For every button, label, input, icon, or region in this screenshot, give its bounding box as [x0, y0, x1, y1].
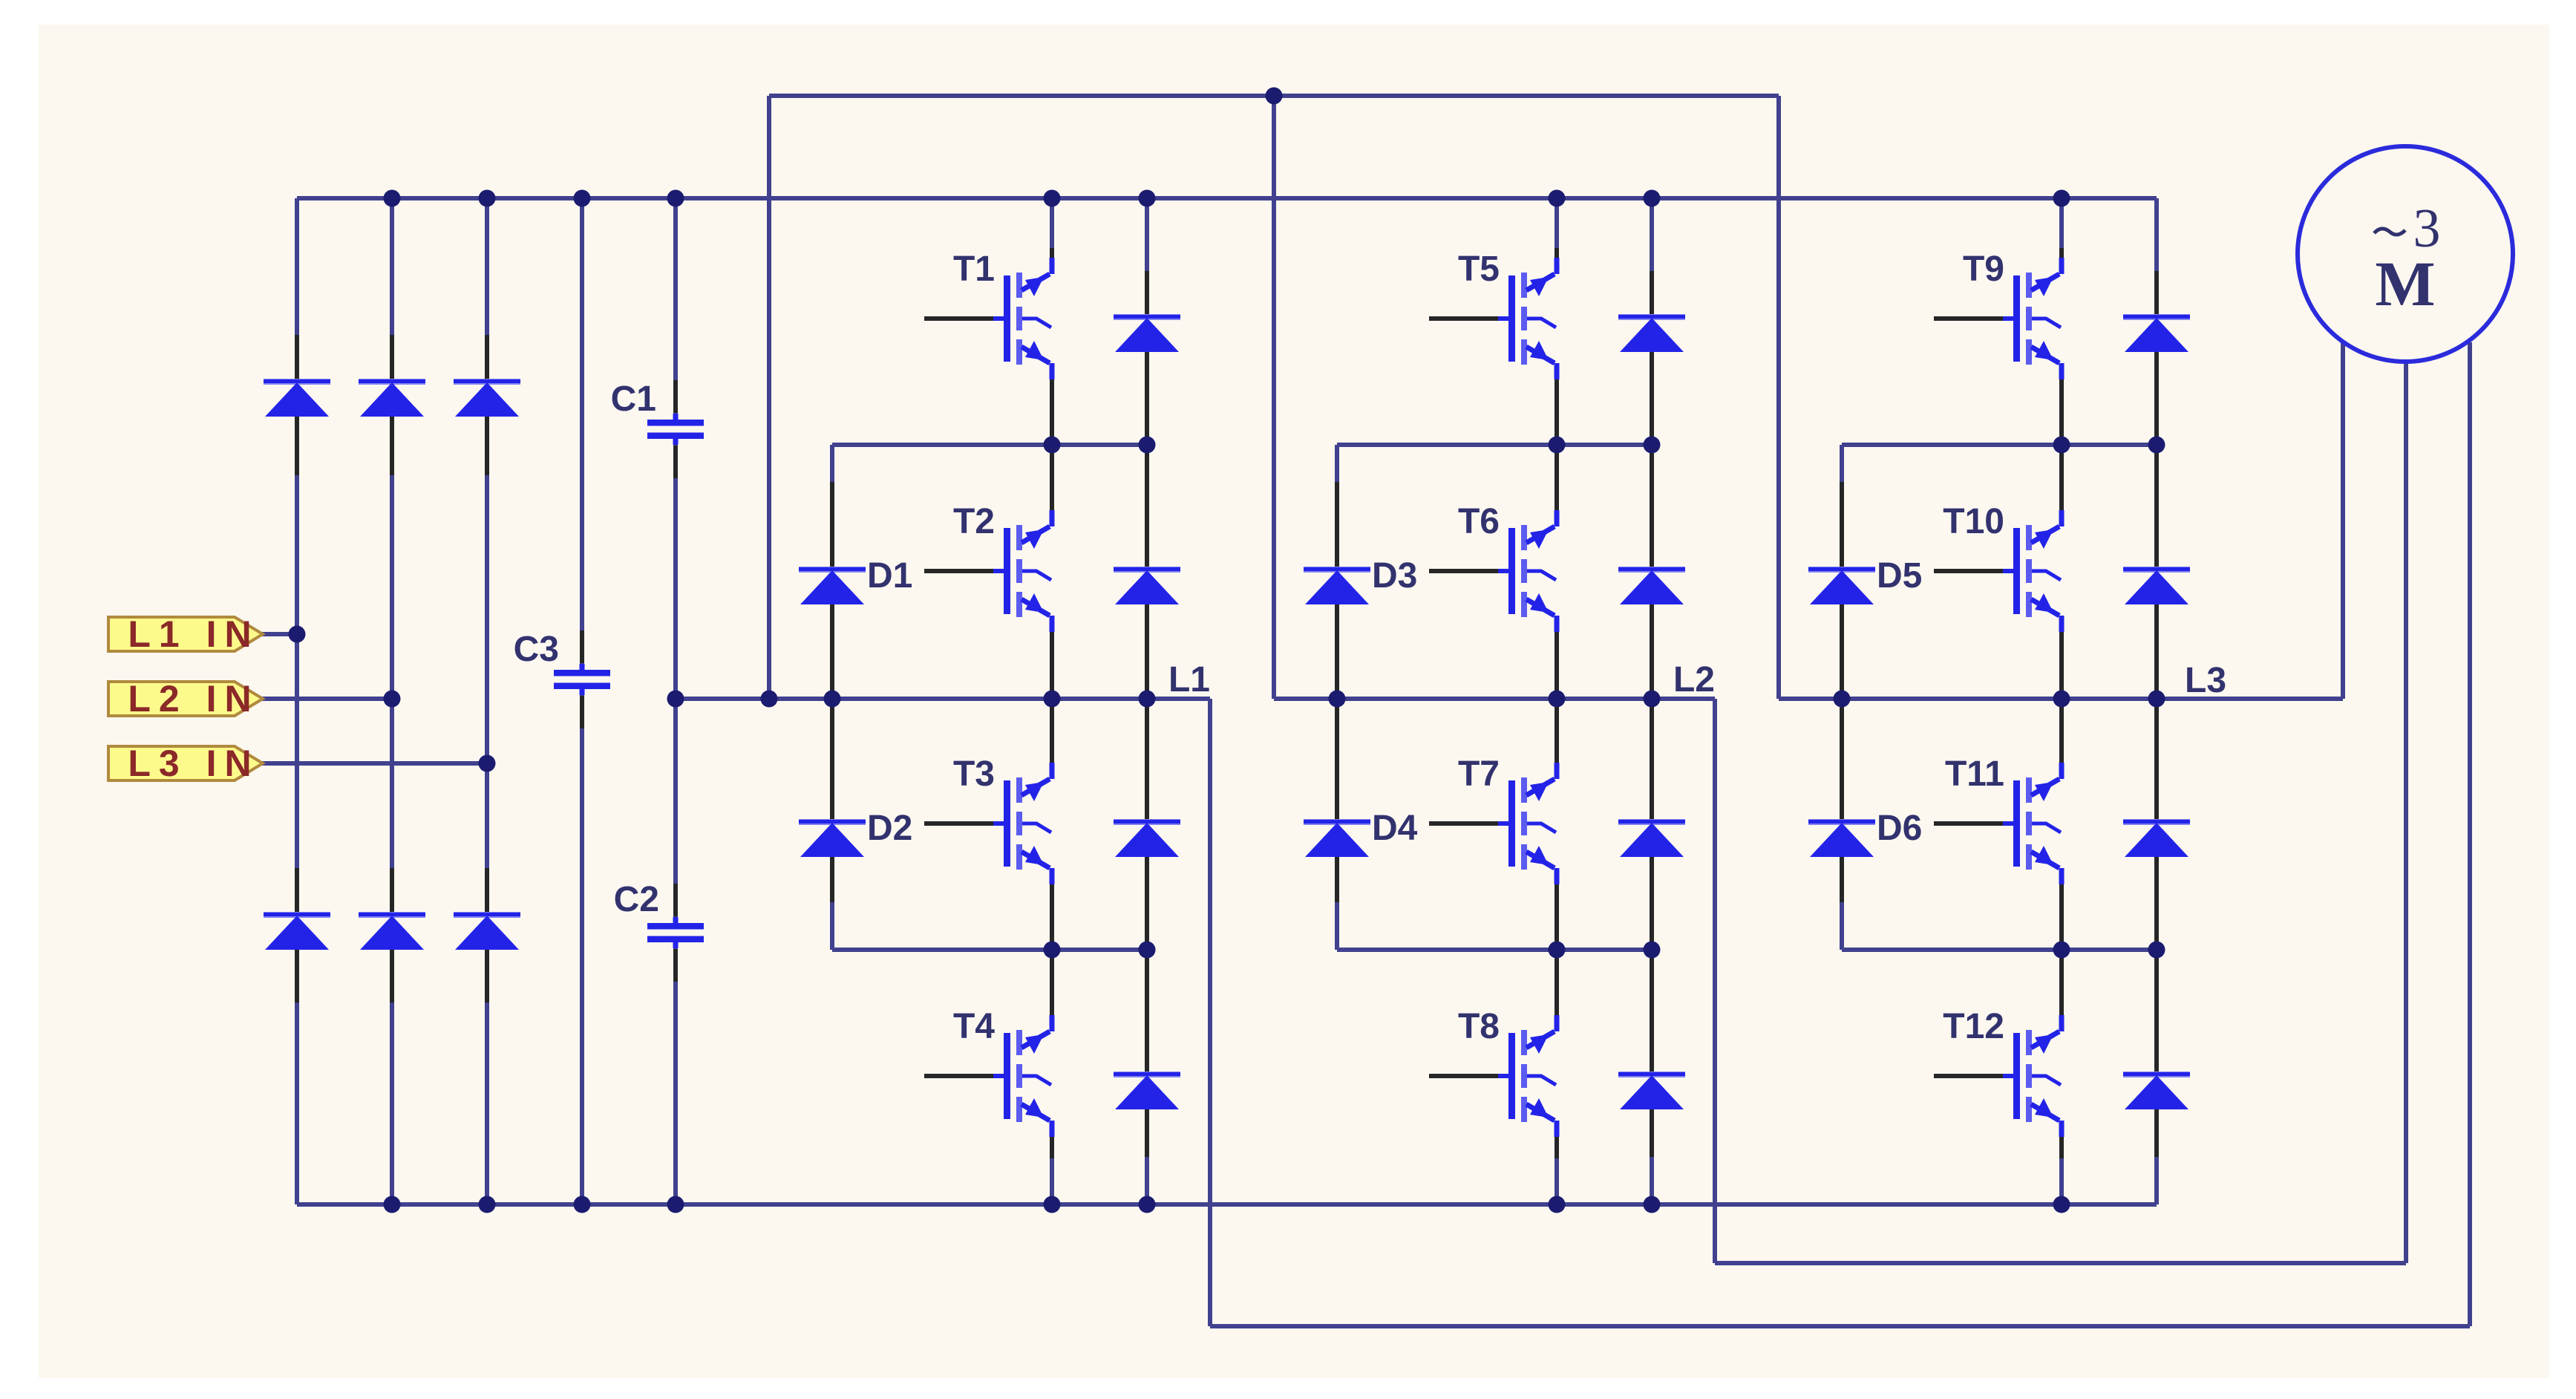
svg-text:T11: T11 [1945, 754, 2004, 794]
svg-text:T10: T10 [1943, 502, 2004, 541]
svg-text:M: M [2375, 248, 2435, 319]
svg-text:L2 IN: L2 IN [128, 678, 259, 720]
svg-text:T2: T2 [953, 502, 995, 541]
svg-text:T12: T12 [1943, 1007, 2004, 1046]
svg-text:C2: C2 [614, 880, 659, 919]
svg-text:L3 IN: L3 IN [128, 743, 259, 784]
svg-text:T4: T4 [953, 1007, 995, 1046]
svg-text:L2: L2 [1673, 660, 1715, 699]
svg-text:D3: D3 [1372, 556, 1417, 596]
svg-text:T9: T9 [1963, 250, 2004, 289]
svg-text:T8: T8 [1458, 1007, 1500, 1046]
svg-text:T6: T6 [1458, 502, 1500, 541]
svg-text:T5: T5 [1458, 250, 1500, 289]
svg-text:D6: D6 [1877, 809, 1922, 848]
svg-text:C3: C3 [514, 630, 559, 669]
svg-text:T3: T3 [953, 754, 995, 794]
svg-text:D5: D5 [1877, 556, 1922, 596]
svg-text:T7: T7 [1458, 754, 1500, 794]
svg-text:L3: L3 [2185, 661, 2226, 700]
svg-text:D1: D1 [867, 556, 912, 596]
svg-text:L1 IN: L1 IN [128, 613, 259, 655]
svg-text:T1: T1 [953, 250, 995, 289]
svg-text:C1: C1 [611, 379, 656, 419]
svg-text:D4: D4 [1372, 809, 1418, 848]
svg-text:D2: D2 [867, 809, 912, 848]
svg-text:L1: L1 [1168, 660, 1210, 699]
